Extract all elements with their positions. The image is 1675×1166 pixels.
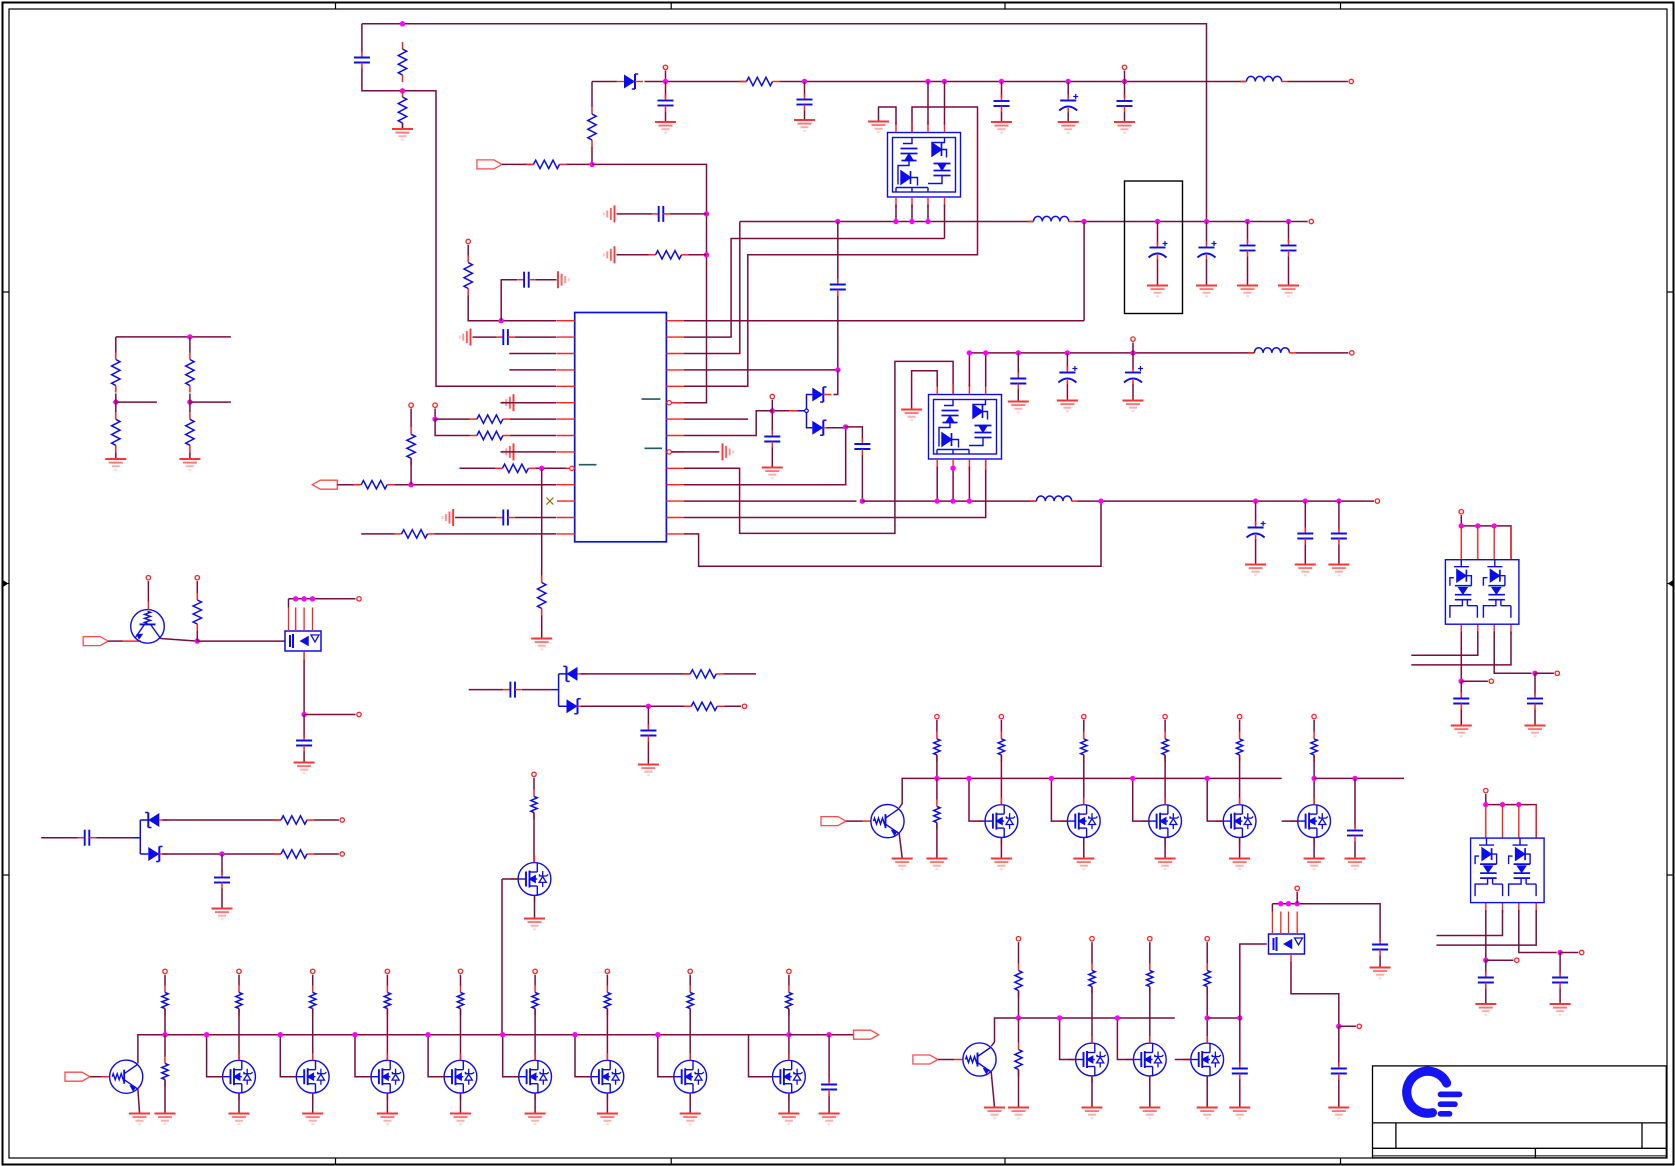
wire to C18 — [1017, 353, 1019, 376]
wire to IC pin3 — [509, 353, 556, 355]
wire to P42 — [1461, 680, 1488, 682]
capacitor C19 (polarized) — [1058, 366, 1077, 386]
MOSFET Q8 — [444, 1060, 477, 1093]
junction gate — [1115, 1015, 1120, 1020]
wire R41 to Q18 drain — [1313, 755, 1315, 805]
wire R6 to EN node — [689, 254, 707, 256]
resistor R5 — [527, 160, 567, 168]
wire C29 to ground — [828, 1096, 830, 1114]
capacitor C29 — [821, 1079, 837, 1096]
junction P5 — [432, 416, 437, 421]
wire C21 to ground — [1255, 540, 1257, 565]
wire Q12 drain to OUT — [789, 1034, 854, 1036]
wire to R10 — [460, 467, 496, 469]
MOSFET Q6 — [296, 1060, 329, 1093]
wire R11 to ground — [541, 616, 543, 639]
resistor R36 — [934, 800, 940, 830]
pin P24 — [458, 969, 462, 973]
ground C3 — [794, 120, 815, 131]
wire U5 pin2 out — [1437, 910, 1503, 936]
capacitor C18 — [1010, 373, 1026, 390]
junction R15/R16 — [113, 399, 118, 404]
wire to P40 — [1339, 1025, 1356, 1027]
wire Q12 gate to bus — [749, 1035, 773, 1077]
wire to R14 — [361, 533, 394, 535]
wire C6 to ground — [1124, 112, 1126, 122]
wire to P46 — [1560, 952, 1578, 954]
junction — [1278, 901, 1283, 906]
wire IC pin22 stub — [684, 418, 748, 420]
ground — [377, 1114, 398, 1125]
junction C18 — [1016, 350, 1021, 355]
wire resistor to MOSFET drain — [689, 1009, 691, 1061]
wire Q18 gate — [1282, 820, 1298, 822]
resistor R8 — [470, 415, 510, 423]
pin P10 — [1350, 351, 1354, 355]
wire R23 to P18 — [314, 853, 339, 855]
wire Q2 drain bus — [289, 598, 356, 600]
wire to D1 anode — [592, 81, 617, 83]
wire SW1 bus — [740, 221, 1034, 223]
wire C17 to SW2 — [861, 455, 863, 501]
wire P12 to Q1 collector — [147, 581, 149, 601]
wire C5 to ground — [1067, 113, 1069, 122]
ground C24 — [294, 763, 315, 774]
ground Q18 — [1304, 859, 1325, 870]
resistor R2 — [398, 90, 406, 130]
ground — [302, 1114, 323, 1125]
MOSFET Q17 — [1223, 805, 1256, 838]
ground C19 — [1057, 401, 1078, 412]
stub — [123, 640, 142, 642]
wire ground to C9 — [473, 336, 497, 338]
pin P39 — [1295, 886, 1299, 890]
ground C23 — [1328, 565, 1349, 576]
wire Q19 emitter — [991, 1072, 994, 1107]
transistor Q1 (digital) — [131, 610, 165, 644]
wire R42 to bus — [1018, 991, 1020, 1019]
wire to C26 — [647, 706, 649, 727]
wire to P45 — [1486, 959, 1514, 961]
wire to C25 — [469, 689, 504, 691]
pin P44 — [1484, 788, 1488, 792]
IC U1 buck controller — [575, 313, 667, 542]
capacitor C35 — [1527, 693, 1543, 710]
junction U4 out3 — [1532, 671, 1537, 676]
ground Q22 — [1197, 1108, 1218, 1119]
capacitor C3 — [797, 94, 813, 111]
junction C20 — [1130, 350, 1135, 355]
wire to C31 — [1239, 1018, 1241, 1066]
wire pin to gate resistor — [1164, 720, 1166, 732]
resistor R3 — [588, 107, 596, 147]
wire PWM1 to Q4 — [90, 1076, 102, 1078]
pin P34 — [1312, 714, 1316, 718]
wire U2 pin to rail — [927, 82, 929, 125]
wire C25 to diodes — [522, 689, 552, 691]
wire MOSFET source to ground — [1239, 838, 1241, 859]
company logo — [1407, 1071, 1460, 1114]
wire Q23 source stub — [1290, 954, 1292, 962]
inductor L3 — [1248, 348, 1295, 353]
capacitor C6 — [1117, 95, 1133, 112]
capacitor C32 — [1372, 939, 1388, 956]
wire resistor to MOSFET drain — [1239, 755, 1241, 805]
wire IC pin26 to SW1 bus — [684, 222, 740, 354]
wire R34 to Q12 drain — [788, 1009, 790, 1061]
pin P41 — [1459, 510, 1463, 514]
wire resistor to MOSFET drain — [460, 1009, 462, 1061]
wire MOSFET gate to bus — [1060, 1018, 1076, 1060]
inductor L1 — [1241, 76, 1288, 81]
junction feedback — [1098, 498, 1103, 503]
wire resistor to MOSFET drain — [312, 1009, 314, 1061]
junction R17/R18 — [187, 399, 192, 404]
wire to C27 — [41, 837, 78, 839]
capacitor C31 — [1232, 1063, 1248, 1080]
wire to C33 — [1338, 1026, 1340, 1065]
wire CTRL to Q1 — [108, 640, 122, 642]
wire C12 to ground — [1157, 260, 1159, 286]
junction — [909, 219, 914, 224]
resistor R18 — [186, 412, 194, 452]
wire pin to gate resistor — [1149, 942, 1151, 963]
resistor R11 — [538, 576, 546, 616]
resistor R14 — [395, 530, 435, 538]
wire U4 pin2 out — [1411, 632, 1478, 656]
transistor Q4 (digital) — [110, 1060, 143, 1093]
wire P28 to R34 — [788, 975, 790, 986]
junction — [967, 350, 972, 355]
wire P29 to R35 — [936, 720, 938, 732]
MOSFET Q12 — [773, 1060, 806, 1093]
diode D7 — [148, 847, 167, 862]
junction R19 — [195, 638, 200, 643]
ground C34 — [1451, 726, 1472, 737]
ground R43 — [1008, 1108, 1029, 1119]
pin P11 — [1375, 499, 1379, 503]
wire to C12 — [1157, 222, 1159, 245]
wire C14 to ground — [1247, 257, 1249, 286]
capacitor C10 — [497, 510, 515, 526]
junction — [950, 466, 955, 471]
wire to C28 — [221, 854, 223, 875]
w — [189, 402, 191, 412]
wire gate bus 3 — [991, 1018, 1175, 1046]
wire VOUT2 rail — [1078, 500, 1375, 502]
junction C29 — [826, 1032, 831, 1037]
junction gate — [352, 1032, 357, 1037]
pin P22 — [311, 969, 315, 973]
wire C20 to ground — [1132, 385, 1134, 401]
wire bus to R36 — [936, 778, 938, 799]
pin P16 — [742, 704, 746, 708]
junction U5 out1 — [1483, 958, 1488, 963]
wire P9 — [1132, 343, 1134, 353]
chassis ground pin20 — [723, 443, 734, 460]
capacitor C26 — [640, 725, 656, 742]
wire R19 to node — [196, 631, 198, 641]
junction R10/R11 — [539, 466, 544, 471]
wire R7 to IC pin1 — [468, 296, 556, 321]
resistor R29 — [384, 986, 390, 1016]
resistor R16 — [112, 412, 120, 452]
wire pin to gate resistor — [1000, 720, 1002, 732]
wire U4 top bus — [1461, 526, 1511, 560]
wire to IC pin4 — [509, 369, 556, 371]
wire P41 — [1460, 515, 1462, 526]
wire R12 to IC pin11 — [394, 484, 556, 486]
capacitor C5 (polarized) — [1059, 94, 1078, 114]
wire ground to C7 — [617, 213, 653, 215]
wire to C3 — [804, 82, 806, 97]
wire resistor to MOSFET drain — [1083, 755, 1085, 805]
junction — [293, 596, 298, 601]
ground — [525, 1114, 546, 1125]
wire Q2 source down — [303, 660, 305, 715]
wire P35 to R42 — [1018, 942, 1020, 963]
junction gate — [500, 1032, 505, 1037]
wire C35 to ground — [1534, 710, 1536, 726]
border center arrows — [3, 581, 9, 586]
wire anode node — [772, 410, 789, 412]
wire gate bus 1 — [138, 1035, 789, 1064]
pin P33 — [1237, 714, 1241, 718]
wire MOSFET gate to bus — [503, 1035, 519, 1077]
junction — [1295, 901, 1300, 906]
capacitor C30 — [1347, 825, 1363, 842]
wire to C1 — [361, 24, 363, 53]
MOSFET Q21 — [1133, 1043, 1166, 1076]
wire R24 to Q3 — [533, 813, 535, 863]
wire node to Q2 gate — [197, 640, 285, 642]
junction — [1459, 523, 1464, 528]
resistor R21 — [684, 702, 724, 710]
junction C31 — [1237, 1015, 1242, 1020]
junction D3 — [843, 424, 848, 429]
wire U4 out1 — [1460, 632, 1462, 682]
wire R21 to P16 — [724, 705, 741, 707]
wire resistor to MOSFET drain — [534, 1009, 536, 1061]
resistor R15 — [112, 353, 120, 393]
wire D4 anode out — [581, 673, 691, 675]
wire Q12 source to ground — [788, 1093, 790, 1113]
wire PWM3 to Q19 — [938, 1059, 954, 1061]
wire P6 to R13 — [410, 409, 412, 428]
junction C4 — [999, 79, 1004, 84]
junction — [1516, 802, 1521, 807]
MOSFET Q9 — [519, 1060, 552, 1093]
wire pin to gate resistor — [1083, 720, 1085, 732]
wire IC pin24 gate drive U2 — [684, 107, 978, 386]
diode D3 — [812, 420, 831, 435]
w — [115, 402, 117, 412]
junction C6 — [1122, 79, 1127, 84]
junction C19 — [1065, 350, 1070, 355]
D6/D7 tie — [133, 820, 149, 854]
Q2 drain pin stubs — [289, 608, 313, 632]
junction gate — [1049, 776, 1054, 781]
ground Q3 — [524, 919, 545, 930]
ground C18 — [1008, 402, 1029, 413]
capacitor C22 — [1297, 528, 1313, 545]
wire to C21 — [1255, 501, 1257, 524]
ground U3 — [901, 410, 922, 421]
wire IC pin17 SW2 bus left — [684, 500, 857, 502]
chassis ground R6 — [604, 246, 615, 263]
junction — [950, 498, 955, 503]
resistor R32 — [604, 986, 610, 1016]
junction gate — [425, 1032, 430, 1037]
pin P5 — [433, 403, 437, 407]
wire pin to gate resistor — [534, 975, 536, 986]
resistor R7 — [464, 256, 472, 296]
pin P7 — [1309, 219, 1313, 223]
wire R22 to P17 — [314, 819, 339, 821]
wire IC pin18 BOOT2 sense — [684, 427, 846, 485]
ground C36 — [1475, 1004, 1496, 1015]
diode D4 — [563, 666, 585, 681]
IC U1 inverted pin bubbles — [667, 401, 671, 405]
wire ground to C10 — [455, 517, 496, 519]
ground C31 — [1229, 1108, 1250, 1119]
ground C13 — [1196, 286, 1217, 297]
wire IC pin16 to U3 source — [684, 459, 986, 517]
wire C27 to diodes — [96, 837, 132, 839]
resistor R45 — [1147, 964, 1153, 994]
resistor R44 — [1089, 964, 1095, 994]
junction — [1483, 802, 1488, 807]
wire U2 out — [911, 205, 913, 222]
junction C28 — [219, 851, 224, 856]
wire C7 to EN node — [670, 213, 707, 215]
connector FB output — [312, 480, 337, 489]
wire U5 out1 — [1485, 910, 1487, 960]
wire Q22 source to ground — [1206, 1076, 1208, 1107]
pin P6 — [409, 403, 413, 407]
wire C15 to ground — [1288, 257, 1290, 286]
junction U2 pin7 — [942, 79, 947, 84]
wire MOSFET source to ground — [460, 1093, 462, 1113]
w — [115, 394, 117, 403]
junction C13 — [1204, 219, 1209, 224]
dual MOSFET U2 — [888, 133, 961, 198]
wire P2 — [1124, 71, 1126, 82]
wire R18 to ground — [189, 452, 191, 458]
wire Q18 source to ground — [1313, 838, 1315, 859]
wire MOSFET source to ground — [1091, 1076, 1093, 1107]
wire to P15 — [304, 714, 355, 716]
wire R20 stub — [723, 673, 756, 675]
wire IC pin27 to U2 source — [684, 239, 945, 338]
wire bus3 to Q23 gate — [1240, 944, 1267, 1018]
wire MOSFET gate to bus — [355, 1035, 371, 1077]
junction C7 — [704, 211, 709, 216]
wire resistor to MOSFET drain — [606, 1009, 608, 1061]
junction — [1492, 523, 1497, 528]
wire U2 drain1 to ground — [879, 107, 897, 125]
wire P20 to R25 — [164, 975, 166, 986]
wire P5 down — [434, 409, 436, 420]
wire to C29 — [828, 1035, 830, 1082]
wire MOSFET source to ground — [312, 1093, 314, 1113]
wire to C5 — [1067, 82, 1069, 98]
resistor R6 — [649, 251, 689, 259]
wire P13 to R19 — [196, 581, 198, 593]
pin P28 — [787, 969, 791, 973]
wire R36 to ground — [936, 823, 938, 859]
wire C23 to ground — [1338, 545, 1340, 565]
wire MOSFET source to ground — [534, 1093, 536, 1113]
wire P4 to R7 — [467, 245, 469, 256]
wire C13 to ground — [1206, 260, 1208, 286]
connector PWM3 input — [913, 1055, 938, 1064]
wire pin to gate resistor — [312, 975, 314, 986]
pin P13 — [195, 576, 199, 580]
wire P8 — [771, 400, 773, 411]
ground — [991, 859, 1012, 870]
wire VOUT1 sense down — [1083, 222, 1085, 321]
wire L3 to P10 — [1295, 352, 1348, 354]
wire to C30 — [1354, 778, 1356, 827]
pin P12 — [146, 576, 150, 580]
resistor R33 — [687, 986, 693, 1016]
wire P39 — [1296, 892, 1298, 904]
wire R43 to ground — [1018, 1070, 1020, 1108]
pin P42 — [1489, 679, 1493, 683]
junction C17/SW2 — [860, 498, 865, 503]
D4/D5 tie — [552, 674, 567, 706]
wire C31 to ground — [1239, 1080, 1241, 1108]
connector OUT1 — [854, 1030, 879, 1039]
junction C30 — [1352, 776, 1357, 781]
junction U2 pin8 — [925, 79, 930, 84]
wire U2 out — [927, 205, 929, 222]
wire R46 to Q22 drain — [1206, 987, 1208, 1044]
capacitor C23 — [1331, 528, 1347, 545]
wire R5 to node — [567, 163, 593, 165]
diode D5 — [567, 699, 586, 714]
pin P9 — [1131, 337, 1135, 341]
resistor R46 — [1204, 964, 1210, 994]
pin P29 — [935, 714, 939, 718]
wire pin to gate resistor — [606, 975, 608, 986]
MOSFET Q10 — [591, 1060, 624, 1093]
junction — [983, 350, 988, 355]
wire R16 to ground — [115, 452, 117, 458]
D2/D3 anode tie — [798, 395, 813, 428]
pin P43 — [1555, 671, 1559, 675]
capacitor C24 — [296, 735, 312, 752]
wire R10 to IC pin10 — [535, 467, 566, 469]
wire MOSFET gate to bus — [658, 1035, 674, 1077]
junction gate — [1205, 776, 1210, 781]
wire MOSFET source to ground — [238, 1093, 240, 1113]
U2 pin stubs — [896, 122, 945, 208]
wire C37 to ground — [1559, 989, 1561, 1004]
wire U2 out — [895, 205, 897, 222]
ground — [1073, 859, 1094, 870]
U3 pin stubs — [937, 384, 986, 470]
wire MOSFET gate to bus — [1207, 778, 1223, 821]
wire R17 tap — [190, 401, 231, 403]
pin P23 — [385, 969, 389, 973]
wire divider top — [116, 336, 231, 338]
MOSFET Q14 — [985, 805, 1018, 838]
capacitor C13 (polarized) — [1198, 241, 1217, 261]
pin P30 — [999, 714, 1003, 718]
wire C19 to ground — [1066, 385, 1068, 401]
